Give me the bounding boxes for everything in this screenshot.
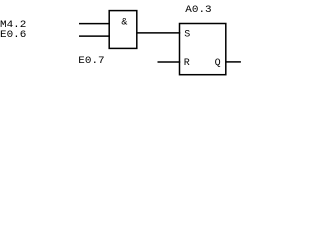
svg-text:&: & [121,18,127,29]
svg-text:Q: Q [215,58,221,69]
svg-text:R: R [184,58,190,69]
wire E0.7 to R input [158,61,181,63]
wire E0.6 to AND input 2 [79,35,110,37]
wire AND output to S input [137,32,180,34]
wire Q output [226,61,241,63]
svg-text:A0.3: A0.3 [185,5,211,16]
svg-text:E0.7: E0.7 [78,56,104,67]
wire M4.2 to AND input 1 [79,23,110,25]
svg-text:E0.6: E0.6 [0,30,26,41]
AND gate box [109,11,137,49]
SR flip-flop box A0.3 [180,24,226,75]
svg-text:S: S [184,29,190,40]
